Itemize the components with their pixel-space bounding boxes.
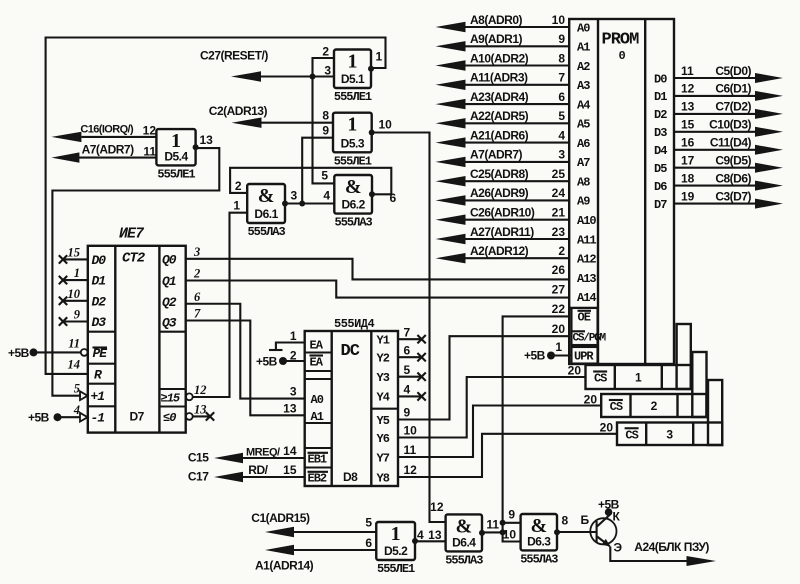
svg-text:Y8: Y8 <box>377 471 390 485</box>
transistor VT1 (NPN) <box>590 515 616 547</box>
PROM chip 2 body <box>601 394 706 417</box>
svg-text:12: 12 <box>404 463 418 477</box>
svg-text:5: 5 <box>404 363 411 377</box>
svg-text:15: 15 <box>68 245 81 259</box>
svg-text:2: 2 <box>290 349 297 363</box>
svg-text:A2: A2 <box>577 60 590 74</box>
power dot +5B EA <box>279 357 287 365</box>
svg-text:19: 19 <box>681 189 695 203</box>
wire A1(ADR14) into D5.2 pin 6 <box>294 549 376 551</box>
svg-text:EB2: EB2 <box>308 472 327 486</box>
wire decoder EA pin 1 tie-off <box>276 343 305 351</box>
svg-text:3: 3 <box>291 189 298 203</box>
wire PROM output C5(D0) <box>674 77 756 79</box>
wire PROM OE down to D6.3 pin 10 <box>503 316 570 541</box>
svg-text:6: 6 <box>390 191 397 205</box>
svg-text:A26(ADR9): A26(ADR9) <box>470 186 529 200</box>
svg-text:Y2: Y2 <box>377 352 390 366</box>
svg-text:13: 13 <box>200 133 214 147</box>
wire decoder Y6 to PROM-1 CS <box>398 377 586 438</box>
connector arrow C11(D4) <box>755 145 783 155</box>
svg-text:1: 1 <box>74 266 80 280</box>
svg-text:D6.4: D6.4 <box>452 535 476 549</box>
wire PROM output C11(D4) <box>674 149 756 151</box>
svg-text:A8: A8 <box>577 176 590 190</box>
svg-text:7: 7 <box>404 325 411 339</box>
x-mark decoder Y2 <box>417 353 425 361</box>
svg-text:15: 15 <box>681 118 695 132</box>
junction OE net at D6.4 output <box>500 529 506 535</box>
wire input A11(ADR3) to PROM <box>464 84 569 86</box>
svg-text:C17: C17 <box>188 470 209 484</box>
svg-text:Q1: Q1 <box>162 274 176 289</box>
svg-text:A11: A11 <box>577 233 596 247</box>
PROM chip 2 back panel <box>692 352 706 417</box>
svg-text:EB1: EB1 <box>308 453 327 467</box>
svg-text:Y7: Y7 <box>377 451 390 465</box>
connector arrow A27(ADR11) <box>436 234 466 244</box>
svg-text:C10(D3): C10(D3) <box>709 118 751 132</box>
connector arrow A2(ADR12) <box>436 253 466 263</box>
wire C27(RESET/) into D5.1 pin 3 <box>258 75 335 77</box>
svg-text:D5.4: D5.4 <box>164 149 188 163</box>
connector arrow C7(D2) <box>755 109 783 119</box>
svg-text:10: 10 <box>404 424 418 438</box>
nand D6.2 (555LA3) <box>334 175 375 214</box>
wire PROM output C9(D5) <box>674 167 756 169</box>
svg-text:A1: A1 <box>311 410 324 424</box>
connector arrow C10(D3) <box>755 127 783 137</box>
wire decoder Y2 stub <box>398 356 422 358</box>
inverter D5.1 (555LE1) <box>334 50 374 89</box>
wire decoder Y5 to PROM CS/PGM <box>398 336 570 419</box>
svg-text:9: 9 <box>508 508 515 522</box>
svg-text:-1: -1 <box>91 411 105 426</box>
inverting bubble counter <=0 <box>186 413 193 420</box>
svg-text:555ЛЕ1: 555ЛЕ1 <box>334 90 372 104</box>
wire input A10(ADR2) to PROM <box>464 64 569 66</box>
connector arrow A7(ADR7) left <box>51 152 79 162</box>
wire input C25(ADR8) to PROM <box>464 180 569 182</box>
svg-text:A27(ADR11): A27(ADR11) <box>470 225 534 239</box>
power dot +5B PE <box>30 348 38 356</box>
wire D5.3 pin 9 to D6.1 output node <box>302 138 333 204</box>
counter D7 (IE7 CT2) <box>88 246 186 433</box>
svg-text:A2(ADR12): A2(ADR12) <box>470 244 529 258</box>
svg-text:Y6: Y6 <box>377 432 390 446</box>
PROM D? main (PROM 0) <box>569 19 674 364</box>
svg-text:C27(RESET/): C27(RESET/) <box>200 49 268 63</box>
svg-text:1: 1 <box>391 523 401 545</box>
wire D5.1 output to counter R (reset net frame) <box>46 38 386 374</box>
junction RESET net at D5.1 pin 3 <box>310 74 316 80</box>
svg-text:5: 5 <box>365 516 372 530</box>
svg-text:12: 12 <box>681 82 695 96</box>
svg-text:CS: CS <box>594 372 607 386</box>
svg-text:6: 6 <box>404 343 411 357</box>
connector arrow A9(ADR1) <box>436 41 466 51</box>
wire input A22(ADR5) to PROM <box>464 122 569 124</box>
connector arrow C26(ADR10) <box>436 215 466 225</box>
wire decoder Y7 to PROM-2 CS <box>398 406 601 458</box>
svg-text:0: 0 <box>619 49 626 63</box>
svg-text:CS/PGM: CS/PGM <box>573 333 607 345</box>
junction D5.3 pin 9 tap on D6.1 output <box>299 201 305 207</box>
svg-text:Q2: Q2 <box>162 295 177 310</box>
connector arrow C3(D7) <box>755 199 783 209</box>
svg-text:D7: D7 <box>130 410 145 424</box>
svg-text:Q0: Q0 <box>162 253 177 268</box>
wire decoder Y3 stub <box>398 376 422 378</box>
svg-text:D3: D3 <box>92 315 107 330</box>
svg-text:6: 6 <box>558 90 565 104</box>
svg-text:8: 8 <box>562 514 569 528</box>
wire D5.4 output to counter +1 input <box>52 148 219 396</box>
wire PROM output C3(D7) <box>674 203 756 205</box>
svg-text:EA: EA <box>310 339 324 353</box>
svg-text:5: 5 <box>558 109 565 123</box>
svg-text:21: 21 <box>552 206 566 220</box>
svg-text:4: 4 <box>558 128 565 142</box>
wire +5B to decoder EA pin 2 <box>283 360 305 362</box>
svg-text:≥15: ≥15 <box>161 391 181 405</box>
svg-text:R: R <box>94 368 102 383</box>
svg-text:&: & <box>455 515 472 537</box>
svg-text:+5B: +5B <box>28 411 50 425</box>
svg-text:A12: A12 <box>577 253 596 267</box>
svg-text:3: 3 <box>324 64 331 78</box>
connector arrow A7(ADR7) <box>436 157 466 167</box>
svg-text:12: 12 <box>143 124 157 138</box>
svg-text:D6.3: D6.3 <box>527 534 551 548</box>
svg-text:10: 10 <box>68 287 81 301</box>
x-mark decoder Y3 <box>417 373 425 381</box>
wire branch into D6.3 pin 9 <box>503 522 521 524</box>
wire PROM output C6(D1) <box>674 95 756 97</box>
svg-text:27: 27 <box>552 283 566 297</box>
svg-text:C5(D0): C5(D0) <box>715 64 751 78</box>
connector arrow A1(ADR14) <box>265 545 294 555</box>
wire A7(ADR7) into D5.4 pin 11 <box>79 157 156 159</box>
wire input A23(ADR4) to PROM <box>464 103 569 105</box>
svg-text:D5.3: D5.3 <box>341 136 365 150</box>
connector arrow C15 MREQ/ <box>214 453 243 463</box>
wire input A8(ADR0) to PROM <box>464 26 569 28</box>
svg-text:26: 26 <box>552 263 566 277</box>
svg-text:A4: A4 <box>577 98 590 112</box>
svg-text:D1: D1 <box>92 274 106 289</box>
svg-text:22: 22 <box>552 302 566 316</box>
connector arrow C5(D0) <box>755 73 783 83</box>
wire PROM output C10(D3) <box>674 131 756 133</box>
svg-text:5: 5 <box>74 382 80 396</box>
wire latch feedback D6.2 output to D6.1 pin 2 <box>230 168 391 195</box>
PROM chip 3 back panel <box>708 380 722 445</box>
svg-text:EA: EA <box>310 356 324 370</box>
svg-text:11: 11 <box>404 443 417 457</box>
svg-text:Э: Э <box>614 541 623 555</box>
svg-text:25: 25 <box>552 167 566 181</box>
svg-text:1: 1 <box>376 50 383 64</box>
svg-text:9: 9 <box>404 406 411 420</box>
wire MREQ/ into decoder EB1 <box>243 457 305 459</box>
svg-text:A9(ADR1): A9(ADR1) <box>470 32 523 46</box>
svg-text:A11(ADR3): A11(ADR3) <box>470 71 528 85</box>
svg-text:9: 9 <box>322 124 329 138</box>
connector arrow C17 RD/ <box>214 472 243 482</box>
connector arrow A22(ADR5) <box>436 118 466 128</box>
connector arrow A23(ADR4) <box>436 99 466 109</box>
svg-text:D8: D8 <box>343 470 358 484</box>
wire input A2(ADR12) to PROM <box>464 257 569 259</box>
wire +5B to counter -1 <box>58 416 81 418</box>
svg-text:К: К <box>613 510 621 524</box>
svg-text:9: 9 <box>74 308 81 322</box>
wire D5.2 output to D6.4 pin 13 <box>415 540 446 542</box>
svg-text:7: 7 <box>194 307 201 321</box>
nand D6.4 (555LA3) <box>446 514 485 551</box>
wire RD/ into decoder EB2 <box>243 476 305 478</box>
svg-text:2: 2 <box>322 45 329 59</box>
svg-text:D7: D7 <box>654 198 667 212</box>
svg-text:D4: D4 <box>654 144 667 158</box>
wire +5B to counter PE <box>37 351 81 353</box>
wire D5.3 output to D6.4 pin 12 <box>372 133 446 523</box>
svg-text:20: 20 <box>584 393 598 407</box>
wire C2(ADR13) into D5.3 pin 8 <box>260 122 334 124</box>
svg-text:11: 11 <box>486 518 499 532</box>
svg-text:C25(ADR8): C25(ADR8) <box>470 167 529 181</box>
x-mark counter <=0 stub <box>206 412 214 420</box>
svg-text:17: 17 <box>681 154 695 168</box>
svg-text:A9: A9 <box>577 195 590 209</box>
svg-text:D5: D5 <box>654 162 667 176</box>
wire counter Q2 to decoder A0 <box>186 304 305 399</box>
connector arrow A10(ADR2) <box>436 60 466 70</box>
nand D6.3 (555LA3) <box>521 514 560 550</box>
decoder D8 (555ID4 DC) <box>305 331 398 486</box>
svg-text:2: 2 <box>193 267 200 281</box>
dynamic input triangle counter -1 <box>80 413 88 422</box>
svg-text:13: 13 <box>428 528 442 542</box>
svg-text:D6: D6 <box>654 180 667 194</box>
x-mark counter D2 <box>59 297 67 305</box>
svg-text:3: 3 <box>558 148 565 162</box>
svg-text:D2: D2 <box>92 294 107 309</box>
svg-text:ИЕ7: ИЕ7 <box>119 226 145 243</box>
PROM chip 1 body <box>586 365 691 389</box>
svg-text:≤0: ≤0 <box>163 411 176 425</box>
wire PROM output C8(D6) <box>674 185 756 187</box>
svg-text:10: 10 <box>379 118 393 132</box>
svg-text:&: & <box>258 185 275 207</box>
wire D6.1 output to D6.2 pin 4 <box>285 202 334 204</box>
svg-text:UPR: UPR <box>574 350 594 364</box>
svg-text:Q3: Q3 <box>162 316 177 331</box>
svg-text:18: 18 <box>681 171 695 185</box>
inverting bubble counter >=15 <box>186 393 193 400</box>
svg-text:14: 14 <box>68 358 81 372</box>
svg-text:C16(IORQ/): C16(IORQ/) <box>80 124 134 136</box>
connector arrow A21(ADR6) <box>436 137 466 147</box>
svg-text:5: 5 <box>321 169 328 183</box>
svg-text:20: 20 <box>600 421 614 435</box>
svg-text:555ЛЕ1: 555ЛЕ1 <box>157 167 195 181</box>
x-mark decoder Y4 <box>417 392 425 400</box>
svg-text:C1(ADR15): C1(ADR15) <box>251 511 310 525</box>
svg-text:C11(D4): C11(D4) <box>710 136 752 150</box>
wire counter >=15 output to D6.1 pin 1 <box>193 213 248 397</box>
svg-text:1: 1 <box>635 371 642 385</box>
svg-text:A13: A13 <box>577 272 596 286</box>
svg-text:555ЛЕ1: 555ЛЕ1 <box>334 154 372 168</box>
wire input A27(ADR11) to PROM <box>464 238 569 240</box>
wire decoder Y4 stub <box>398 395 422 397</box>
wire PROM output C7(D2) <box>674 113 756 115</box>
connector arrow C16(IORQ/) <box>51 132 81 142</box>
svg-text:4: 4 <box>323 189 330 203</box>
svg-text:555ЛА3: 555ЛА3 <box>335 216 373 230</box>
svg-text:11: 11 <box>143 145 156 159</box>
wire counter D1 stub <box>63 279 88 281</box>
svg-text:RD/: RD/ <box>248 463 268 477</box>
wire C1(ADR15) into D5.2 pin 5 <box>294 531 376 533</box>
svg-text:Б: Б <box>581 513 590 527</box>
svg-text:16: 16 <box>681 136 695 150</box>
svg-text:D5.2: D5.2 <box>384 544 408 558</box>
svg-text:8: 8 <box>558 51 565 65</box>
svg-text:D1: D1 <box>654 90 667 104</box>
svg-text:&: & <box>345 176 362 198</box>
junction OE net at D6.3 pin 9 <box>500 520 506 526</box>
svg-text:A22(ADR5): A22(ADR5) <box>470 109 529 123</box>
svg-text:D5.1: D5.1 <box>341 72 365 86</box>
connector arrow A24 <box>687 556 717 566</box>
svg-text:12: 12 <box>430 500 444 514</box>
svg-text:C26(ADR10): C26(ADR10) <box>470 206 535 220</box>
svg-text:PROM: PROM <box>602 31 640 50</box>
wire counter D3 stub <box>63 320 88 322</box>
svg-text:A7(ADR7): A7(ADR7) <box>470 148 523 162</box>
svg-text:+1: +1 <box>91 389 105 404</box>
svg-text:555ЛЕ1: 555ЛЕ1 <box>377 562 415 576</box>
svg-text:A6: A6 <box>577 137 590 151</box>
inverting bubble counter PE <box>81 349 88 356</box>
svg-text:7: 7 <box>558 71 565 85</box>
svg-text:CT2: CT2 <box>122 251 146 267</box>
svg-text:1: 1 <box>290 329 297 343</box>
svg-text:Y5: Y5 <box>377 414 390 428</box>
wire +5B to PROM UPR <box>551 354 572 356</box>
connector arrow C8(D6) <box>755 181 783 191</box>
wire input C26(ADR10) to PROM <box>464 219 569 221</box>
wire counter D0 stub <box>63 258 88 260</box>
svg-text:DC: DC <box>341 342 360 361</box>
dynamic input triangle counter +1 <box>80 391 88 400</box>
svg-text:A23(ADR4): A23(ADR4) <box>470 90 529 104</box>
svg-text:3: 3 <box>193 245 200 259</box>
connector arrow C27(RESET/) <box>231 71 261 81</box>
svg-text:A1: A1 <box>577 41 590 55</box>
svg-text:Y3: Y3 <box>377 371 390 385</box>
inverter D5.2 (555LE1) <box>376 522 418 560</box>
power dot +5B -1 <box>54 413 62 421</box>
svg-text:13: 13 <box>283 401 297 415</box>
svg-text:+5B: +5B <box>524 349 546 363</box>
x-mark decoder Y1 <box>417 335 425 343</box>
svg-text:A3: A3 <box>577 79 590 93</box>
svg-text:C15: C15 <box>188 451 209 465</box>
wire input A26(ADR9) to PROM <box>464 199 569 201</box>
svg-text:8: 8 <box>322 109 329 123</box>
svg-text:9: 9 <box>558 32 565 46</box>
wire counter D2 stub <box>63 300 88 302</box>
svg-text:2: 2 <box>235 179 242 193</box>
svg-text:15: 15 <box>283 463 297 477</box>
svg-text:6: 6 <box>194 290 201 304</box>
wire counter Q3 to decoder A1 <box>186 321 305 416</box>
svg-text:23: 23 <box>552 225 566 239</box>
svg-text:CS: CS <box>610 400 623 414</box>
svg-text:C7(D2): C7(D2) <box>715 100 751 114</box>
svg-text:Y1: Y1 <box>377 334 390 348</box>
svg-text:+5B: +5B <box>256 355 278 369</box>
svg-text:C9(D5): C9(D5) <box>715 154 751 168</box>
wire transistor emitter to A24 output <box>610 547 686 562</box>
wire counter Q0 to PROM A13 <box>186 259 570 280</box>
svg-text:MREQ/: MREQ/ <box>246 446 280 458</box>
svg-text:A10(ADR2): A10(ADR2) <box>470 51 529 65</box>
svg-text:C2(ADR13): C2(ADR13) <box>209 104 268 118</box>
connector arrow C2(ADR13) <box>232 118 262 128</box>
svg-text:6: 6 <box>365 536 372 550</box>
svg-text:20: 20 <box>552 322 566 336</box>
svg-text:4: 4 <box>417 528 424 542</box>
svg-text:A5: A5 <box>577 118 590 132</box>
svg-text:Y4: Y4 <box>377 391 390 405</box>
svg-text:CS: CS <box>625 428 638 442</box>
svg-text:A10: A10 <box>577 214 596 228</box>
svg-text:1: 1 <box>348 51 358 73</box>
svg-text:24: 24 <box>552 186 566 200</box>
svg-text:C8(D6): C8(D6) <box>715 171 751 185</box>
svg-text:14: 14 <box>283 444 297 458</box>
wire RESET/ vertical tying D5.1 pins 2,3 and D6.2 pin 5 <box>313 58 335 183</box>
svg-text:D6.2: D6.2 <box>341 198 365 212</box>
svg-text:D0: D0 <box>92 253 107 268</box>
svg-text:+5B: +5B <box>8 346 30 360</box>
connector arrow A26(ADR9) <box>436 195 466 205</box>
svg-text:4: 4 <box>73 403 80 417</box>
svg-text:A1(ADR14): A1(ADR14) <box>255 559 314 573</box>
svg-text:3: 3 <box>290 385 297 399</box>
wire input A21(ADR6) to PROM <box>464 142 569 144</box>
svg-text:555ЛА3: 555ЛА3 <box>445 553 483 567</box>
svg-text:A0: A0 <box>577 21 590 35</box>
svg-text:555ЛА3: 555ЛА3 <box>520 552 558 566</box>
connector arrow C6(D1) <box>755 91 783 101</box>
svg-text:555ЛА3: 555ЛА3 <box>247 225 285 239</box>
wire counter <0 stub <box>193 415 210 417</box>
wire D6.4 output to OE net <box>482 531 503 533</box>
svg-text:13: 13 <box>194 402 207 416</box>
svg-text:A24(БЛК ПЗУ): A24(БЛК ПЗУ) <box>634 540 709 554</box>
connector arrow C25(ADR8) <box>436 176 466 186</box>
connector arrow A8(ADR0) <box>436 22 466 32</box>
collector +5B dot <box>605 508 613 516</box>
svg-text:11: 11 <box>68 337 80 351</box>
power dot +5B UPR <box>547 352 555 360</box>
